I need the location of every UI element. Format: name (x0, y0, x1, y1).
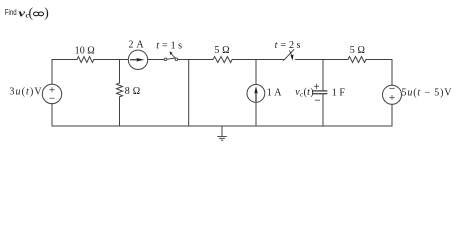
wire between switch t=2s and capacitor node (296, 59, 348, 61)
wire 1A branch upper (255, 60, 257, 85)
current source 2A arrow (130, 58, 145, 62)
wire right vertical lower (391, 105, 393, 127)
wire between 5Ω and switch t=2s (232, 59, 284, 61)
switch t=2s closing arrow (290, 51, 294, 61)
svg-text:5u(t − 5)V: 5u(t − 5)V (402, 88, 453, 99)
resistor 5Ω (right) body (348, 57, 366, 63)
wire left vertical lower (51, 104, 53, 126)
wire 8Ω branch lower (119, 97, 121, 126)
svg-text:v: v (18, 8, 25, 19)
svg-text:5 Ω: 5 Ω (350, 45, 365, 56)
voltage source 5u(t-5)V circle (383, 85, 402, 104)
svg-text:1 F: 1 F (332, 88, 346, 99)
svg-text:3u(t)V: 3u(t)V (9, 86, 42, 97)
svg-text:): ) (44, 5, 49, 21)
voltage source 3u(t)V minus sign (50, 97, 54, 99)
current source 2A circle (128, 50, 147, 69)
voltage source 3u(t)V circle (42, 84, 61, 103)
switch t=1s left contact (164, 58, 167, 61)
wire bottom horizontal (52, 125, 392, 127)
svg-text:(: ( (29, 5, 34, 21)
switch t=1s blade (167, 58, 175, 59)
wire middle vertical node x=189 (188, 60, 190, 127)
ground stem (221, 126, 223, 136)
switch t=1s right contact (175, 58, 178, 61)
voltage source 5u(t-5)V plus sign (390, 95, 394, 99)
svg-text:10 Ω: 10 Ω (75, 45, 95, 56)
svg-text:2 A: 2 A (129, 40, 145, 51)
switch t=1s opening arrow (169, 51, 175, 58)
svg-text:Find: Find (5, 8, 17, 17)
wire right vertical upper (391, 60, 393, 86)
voltage source 5u(t-5)V minus sign (390, 87, 394, 89)
wire top-right to corner (366, 59, 392, 61)
wire capacitor branch lower (322, 94, 324, 126)
svg-text:vc(t): vc(t) (295, 87, 314, 98)
svg-text:t = 2 s: t = 2 s (275, 40, 301, 51)
title Find vc(inf) (5, 5, 49, 21)
current source 1A circle (247, 85, 265, 103)
svg-text:5 Ω: 5 Ω (214, 45, 229, 56)
svg-text:t = 1 s: t = 1 s (156, 40, 182, 51)
capacitor plus polarity mark (314, 84, 318, 88)
wire 1A branch lower (255, 102, 257, 126)
switch t=2s blade (284, 50, 294, 61)
resistor 8Ω body (117, 83, 123, 97)
capacitor C 1F plates (314, 91, 327, 94)
wire between switch t=1s and node at x=189 (178, 59, 213, 61)
svg-text:8 Ω: 8 Ω (125, 86, 141, 97)
wire 8Ω branch upper (119, 60, 121, 84)
voltage source 3u(t)V plus sign (50, 88, 54, 92)
wire left vertical upper (51, 60, 53, 85)
wire between 2A source and switch t=1s (148, 59, 164, 61)
wire top between 10Ω and 2A source (94, 59, 128, 61)
capacitor minus polarity mark (315, 99, 319, 101)
wire top-left horizontal (52, 59, 77, 61)
current source 1A arrow (254, 86, 258, 101)
svg-text:1 A: 1 A (267, 88, 282, 99)
resistor 10Ω body (77, 57, 94, 63)
ground bars (217, 136, 226, 140)
wire capacitor branch upper (322, 60, 324, 91)
resistor 5Ω (middle) body (213, 57, 232, 63)
